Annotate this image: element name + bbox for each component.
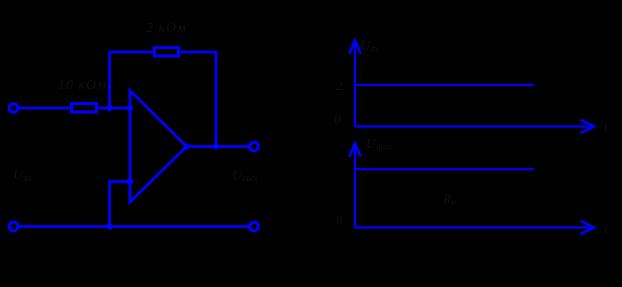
wire input to R1 — [19, 107, 70, 110]
resistor R2 feedback — [155, 48, 179, 57]
svg-text:t: t — [604, 120, 608, 135]
graph1 x-arrowhead — [581, 120, 595, 133]
graph2 x-arrowhead — [581, 221, 595, 234]
wire R1 to op-amp inverting input — [98, 107, 131, 110]
svg-text:2: 2 — [336, 78, 343, 93]
terminal bottom-right — [250, 222, 259, 231]
resistor R1 — [72, 104, 97, 113]
wire output — [187, 145, 250, 148]
graph2 y-arrowhead — [349, 144, 360, 157]
wire feedback right and down to output — [180, 52, 216, 147]
svg-text:-: - — [134, 102, 138, 116]
svg-text:+: + — [134, 175, 141, 189]
terminal input top-left — [9, 104, 18, 113]
svg-text:0: 0 — [336, 212, 343, 227]
graph1 x-axis — [355, 125, 590, 127]
svg-text:0: 0 — [334, 111, 341, 126]
svg-text:10 кОм: 10 кОм — [58, 78, 107, 93]
node op-amp output — [183, 143, 189, 149]
wire non-inverting input to bottom rail — [110, 182, 132, 227]
terminal bottom-left — [9, 222, 18, 231]
graph1 signal Uвх — [356, 84, 534, 86]
graph2 signal Uвых — [356, 168, 534, 170]
svg-text:t: t — [604, 221, 608, 236]
wire feedback up-left — [110, 52, 154, 108]
terminal output right — [250, 142, 259, 151]
node feedback join — [213, 143, 219, 149]
op-amp U1 — [130, 91, 187, 203]
svg-text:2 кОм: 2 кОм — [146, 21, 187, 36]
node inverting input — [127, 105, 133, 111]
graph1 y-arrowhead — [349, 41, 360, 54]
graph2 x-axis — [355, 226, 590, 228]
node non-inverting input — [127, 178, 133, 184]
wire bottom rail — [19, 225, 249, 228]
graph1 y-axis — [354, 44, 356, 127]
graph2 y-axis — [354, 147, 356, 228]
node bottom rail junction — [106, 223, 112, 229]
node A (feedback tap) — [106, 105, 112, 111]
